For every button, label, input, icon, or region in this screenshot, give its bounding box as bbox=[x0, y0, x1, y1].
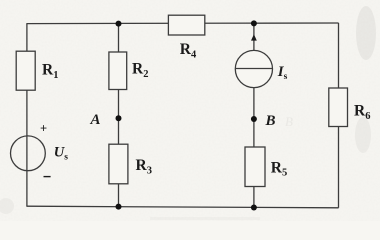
resistor R6 bbox=[329, 88, 371, 127]
node A bbox=[90, 112, 122, 128]
wire right branch bbox=[338, 23, 340, 208]
wire left branch bbox=[26, 24, 28, 207]
wire top bbox=[26, 22, 338, 25]
wire current-source branch lower bbox=[253, 88, 255, 208]
resistor R3 bbox=[109, 144, 152, 184]
resistor R2 bbox=[109, 52, 149, 90]
resistor R1 bbox=[16, 51, 58, 90]
node B bbox=[251, 113, 276, 129]
svg-text:+: + bbox=[40, 122, 47, 136]
voltage source Us bbox=[11, 122, 69, 177]
junction dot top-left bbox=[116, 21, 122, 27]
svg-text:B: B bbox=[265, 113, 276, 129]
resistor R5 bbox=[245, 147, 287, 187]
wire middle branch (R2/R3) bbox=[118, 24, 120, 207]
junction dot bottom-left bbox=[116, 204, 122, 210]
wire bottom bbox=[26, 206, 338, 208]
svg-text:A: A bbox=[90, 112, 101, 128]
wire current-source branch upper bbox=[253, 23, 255, 50]
junction dot bottom-right bbox=[251, 205, 257, 211]
current source Is bbox=[235, 34, 287, 87]
resistor R4 bbox=[168, 15, 204, 60]
junction dot top-right bbox=[251, 20, 257, 26]
